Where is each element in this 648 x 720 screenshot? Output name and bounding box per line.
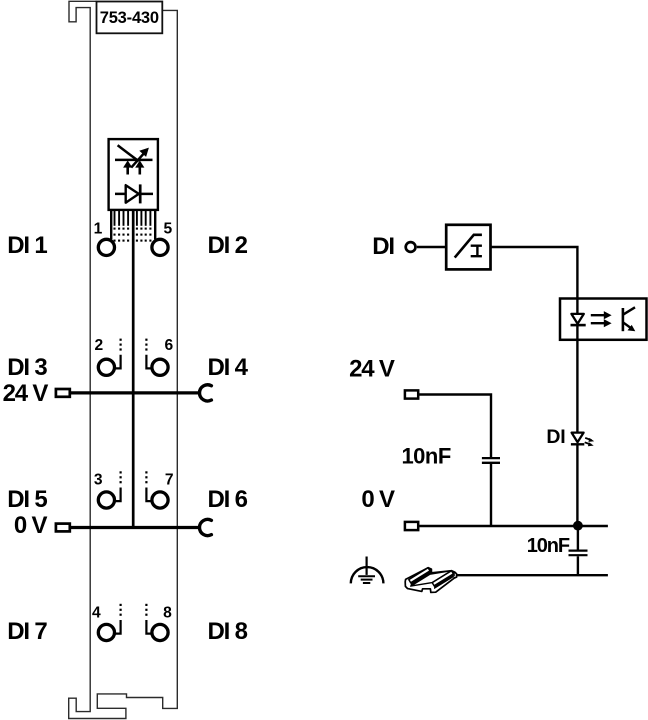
svg-text:10nF: 10nF (401, 444, 450, 469)
svg-text:753-430: 753-430 (100, 9, 159, 27)
svg-text:24 V: 24 V (349, 355, 395, 382)
svg-text:5: 5 (163, 221, 172, 238)
svg-text:10nF: 10nF (527, 535, 570, 557)
svg-text:DI 4: DI 4 (208, 354, 249, 381)
svg-text:8: 8 (163, 605, 172, 622)
svg-text:0 V: 0 V (361, 486, 395, 513)
svg-text:0 V: 0 V (14, 512, 48, 539)
svg-text:1: 1 (94, 221, 103, 238)
svg-text:DI 8: DI 8 (208, 618, 248, 645)
svg-text:2: 2 (94, 337, 103, 354)
svg-text:DI: DI (546, 426, 565, 448)
svg-text:DI 2: DI 2 (208, 232, 248, 259)
svg-text:DI 6: DI 6 (208, 486, 248, 513)
svg-text:DI 1: DI 1 (7, 232, 47, 259)
svg-text:6: 6 (165, 337, 174, 354)
svg-text:DI 7: DI 7 (7, 618, 47, 645)
svg-text:3: 3 (94, 472, 103, 489)
svg-text:24 V: 24 V (3, 380, 49, 407)
svg-text:DI 3: DI 3 (7, 354, 47, 381)
svg-text:DI 5: DI 5 (7, 486, 47, 513)
svg-text:7: 7 (165, 472, 174, 489)
svg-text:4: 4 (92, 605, 101, 622)
svg-text:DI: DI (372, 233, 394, 260)
